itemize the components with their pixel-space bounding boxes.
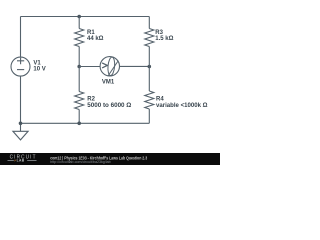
wire left column lower — [20, 76, 22, 123]
wire R2 top lead — [78, 67, 80, 92]
svg-text:V1: V1 — [33, 60, 41, 66]
resistor R1 — [75, 29, 84, 47]
svg-text:R3: R3 — [155, 30, 163, 36]
wire R4 top lead — [148, 67, 150, 92]
svg-text:R1: R1 — [87, 30, 95, 36]
svg-text:10 V: 10 V — [33, 66, 45, 72]
node junction bottom left — [19, 122, 23, 126]
resistor R4 — [145, 91, 154, 109]
node junction middle right — [148, 65, 152, 69]
logo CircuitLab wordmark — [8, 155, 37, 163]
svg-text:R2: R2 — [87, 97, 95, 103]
resistor R3 — [145, 29, 154, 47]
logo spark — [14, 159, 16, 162]
wire R2 bottom lead — [78, 110, 80, 124]
wire R4 bottom lead — [148, 109, 150, 123]
svg-text:R4: R4 — [156, 97, 164, 103]
wire R1 bottom lead — [78, 47, 80, 67]
svg-text:1.5 kΩ: 1.5 kΩ — [155, 36, 173, 42]
svg-text:5000 to 6000 Ω: 5000 to 6000 Ω — [87, 103, 131, 109]
voltmeter VM1 — [100, 57, 119, 76]
wire bottom horizontal — [21, 122, 150, 124]
node junction top R1 — [77, 15, 81, 19]
svg-text:LAB: LAB — [17, 159, 25, 163]
wire R3 bottom lead — [148, 47, 150, 67]
wire middle right segment — [120, 65, 150, 67]
wire middle left segment — [79, 66, 100, 68]
voltage source V1 — [11, 57, 30, 76]
label R4 value — [156, 97, 208, 109]
wire top horizontal — [21, 16, 150, 18]
svg-text:variable <1000k Ω: variable <1000k Ω — [156, 103, 208, 109]
label V1 value — [33, 60, 45, 72]
wire R1 top lead — [78, 17, 80, 29]
ground — [13, 123, 28, 140]
wire left column upper — [20, 17, 22, 58]
node junction middle left — [77, 65, 81, 69]
wire R3 top lead — [148, 17, 150, 29]
resistor R2 — [75, 92, 84, 110]
label R2 value — [87, 97, 131, 109]
label R3 value — [155, 30, 173, 42]
svg-text:VM1: VM1 — [102, 79, 115, 85]
svg-text:http://circuitlab.com/circuit/: http://circuitlab.com/circuit/ba23kg/lab — [50, 160, 111, 164]
node junction bottom R2 — [77, 122, 81, 126]
svg-text:44 kΩ: 44 kΩ — [87, 36, 104, 42]
label R1 value — [87, 30, 104, 42]
banner background — [0, 153, 220, 165]
